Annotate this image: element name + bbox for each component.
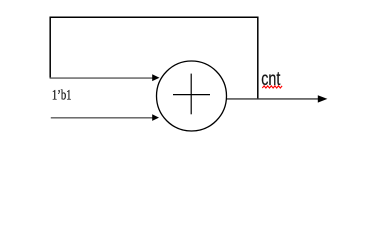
svg-text:1’b1: 1’b1 (52, 86, 72, 103)
